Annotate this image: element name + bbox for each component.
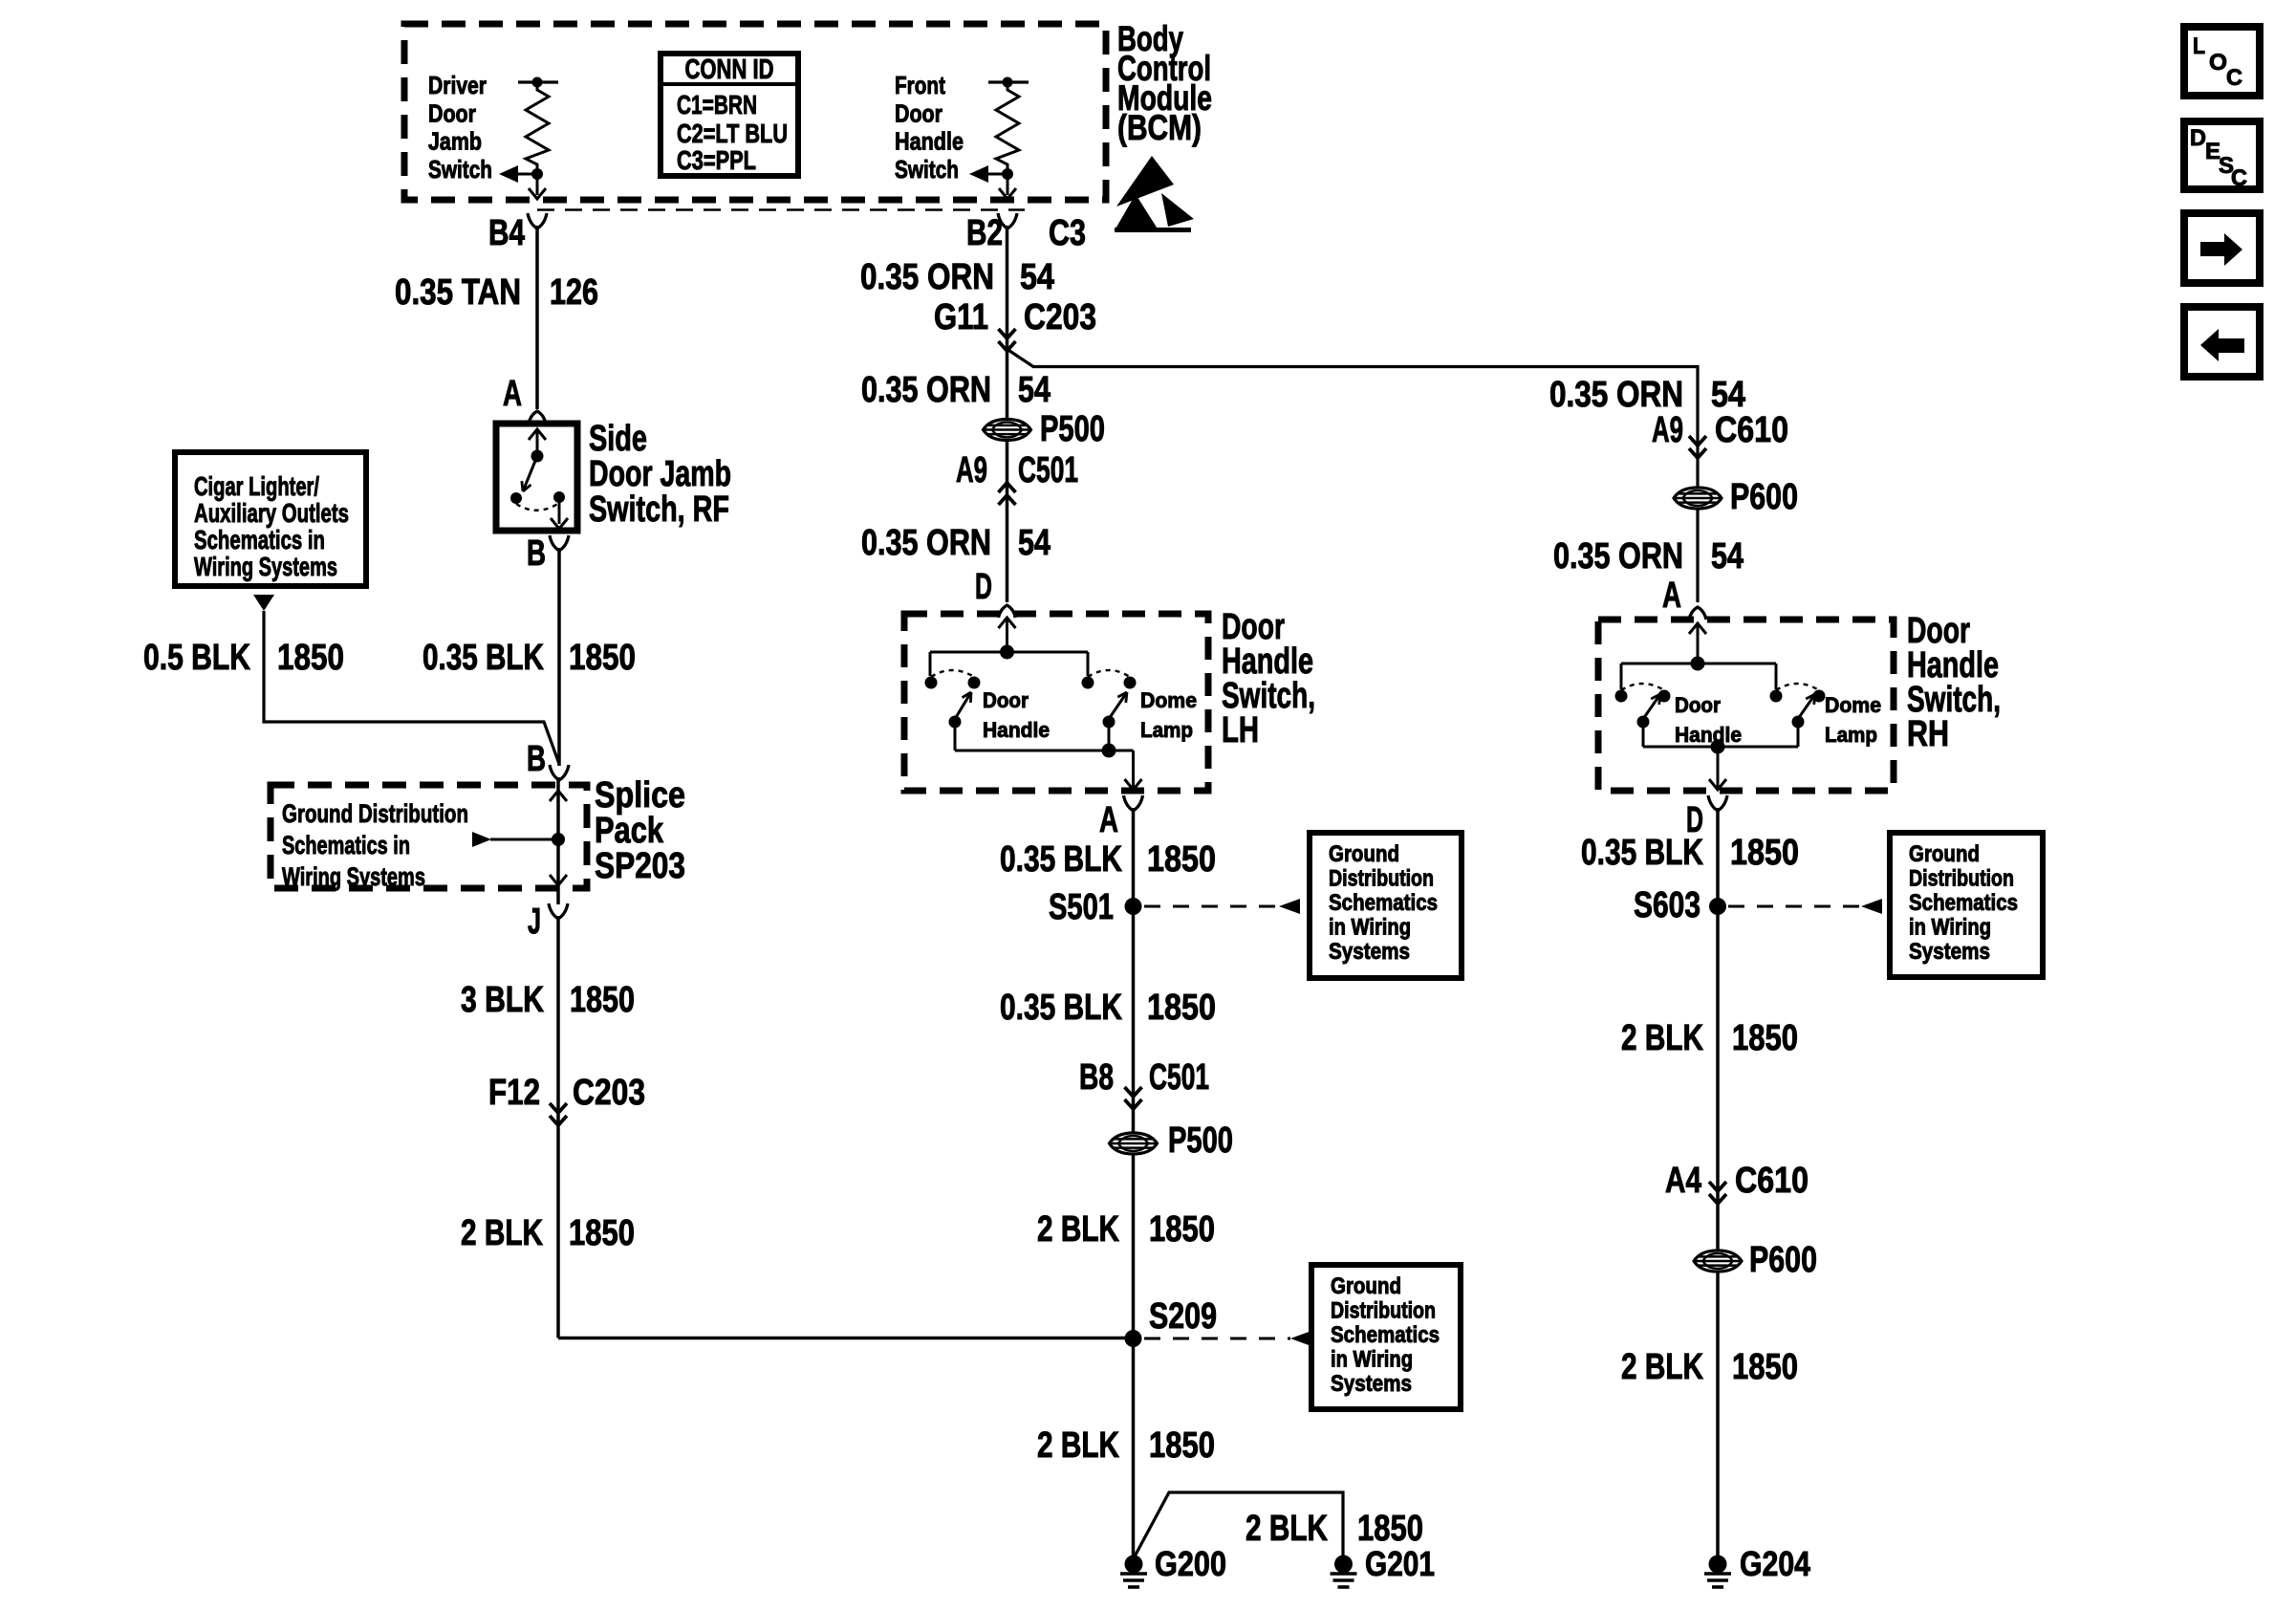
svg-text:G201: G201 [1365, 1544, 1435, 1583]
svg-text:S603: S603 [1634, 885, 1700, 925]
svg-text:1850: 1850 [1730, 833, 1799, 873]
svg-text:0.35 BLK: 0.35 BLK [1000, 988, 1122, 1028]
svg-text:Ground Distribution: Ground Distribution [282, 799, 468, 828]
svg-text:C501: C501 [1018, 450, 1078, 490]
svg-text:2 BLK: 2 BLK [1037, 1209, 1119, 1250]
svg-text:0.35 ORN: 0.35 ORN [1553, 536, 1683, 577]
svg-text:G11: G11 [934, 297, 988, 337]
svg-text:Door: Door [983, 688, 1029, 712]
svg-text:1850: 1850 [570, 980, 635, 1020]
svg-text:B2: B2 [966, 213, 1003, 253]
svg-text:Switch: Switch [895, 155, 959, 184]
svg-text:A: A [1099, 800, 1118, 840]
svg-text:Front: Front [895, 71, 945, 99]
svg-text:C: C [2226, 65, 2242, 91]
svg-text:Systems: Systems [1331, 1371, 1412, 1397]
svg-text:Lamp: Lamp [1140, 718, 1193, 742]
svg-text:0.35 ORN: 0.35 ORN [861, 523, 991, 563]
svg-text:Schematics in: Schematics in [194, 525, 325, 555]
svg-text:Handle: Handle [895, 127, 964, 156]
svg-text:54: 54 [1711, 536, 1744, 577]
svg-text:D: D [975, 567, 992, 607]
svg-text:B8: B8 [1079, 1057, 1114, 1098]
svg-text:C610: C610 [1715, 410, 1788, 450]
svg-text:C3=PPL: C3=PPL [677, 145, 756, 175]
svg-text:C203: C203 [1024, 297, 1096, 337]
svg-text:2 BLK: 2 BLK [1245, 1509, 1328, 1549]
svg-text:0.35 ORN: 0.35 ORN [861, 370, 991, 410]
svg-text:Schematics: Schematics [1909, 890, 2018, 916]
svg-text:1850: 1850 [1149, 1209, 1215, 1250]
svg-text:0.35 ORN: 0.35 ORN [860, 257, 994, 297]
svg-text:1850: 1850 [1357, 1509, 1423, 1549]
svg-text:0.35 TAN: 0.35 TAN [395, 272, 521, 313]
svg-text:1850: 1850 [569, 638, 636, 678]
svg-text:Driver: Driver [428, 71, 487, 99]
svg-text:C203: C203 [573, 1073, 645, 1113]
svg-text:Wiring Systems: Wiring Systems [194, 552, 337, 581]
svg-text:Side: Side [589, 419, 647, 459]
svg-text:Distribution: Distribution [1331, 1298, 1436, 1324]
svg-text:S501: S501 [1049, 887, 1114, 927]
svg-text:Schematics: Schematics [1331, 1322, 1440, 1348]
svg-text:in Wiring: in Wiring [1909, 915, 1991, 941]
svg-text:Lamp: Lamp [1825, 723, 1877, 747]
svg-text:J: J [528, 902, 541, 942]
svg-text:B4: B4 [488, 213, 525, 253]
svg-text:Cigar Lighter/: Cigar Lighter/ [194, 471, 319, 501]
svg-text:126: 126 [550, 272, 598, 313]
svg-text:C2=LT BLU: C2=LT BLU [677, 119, 788, 148]
svg-text:54: 54 [1018, 523, 1051, 563]
svg-text:S209: S209 [1149, 1296, 1217, 1337]
svg-text:Door: Door [895, 98, 942, 127]
svg-text:Distribution: Distribution [1329, 866, 1434, 892]
svg-text:Handle: Handle [1675, 723, 1742, 747]
svg-text:Door Jamb: Door Jamb [589, 454, 731, 494]
svg-text:C: C [2231, 165, 2247, 191]
svg-text:Jamb: Jamb [428, 127, 482, 156]
svg-text:Ground: Ground [1331, 1273, 1401, 1299]
svg-text:C610: C610 [1735, 1161, 1809, 1201]
svg-text:Pack: Pack [595, 811, 664, 851]
svg-text:CONN ID: CONN ID [685, 54, 774, 85]
svg-text:2 BLK: 2 BLK [1037, 1425, 1119, 1466]
svg-text:0.35 BLK: 0.35 BLK [1581, 833, 1703, 873]
svg-text:Schematics: Schematics [1329, 890, 1438, 916]
svg-text:P600: P600 [1730, 477, 1798, 517]
svg-text:1850: 1850 [1149, 1425, 1215, 1466]
svg-text:1850: 1850 [277, 638, 344, 678]
svg-text:2 BLK: 2 BLK [1621, 1347, 1703, 1387]
svg-text:1850: 1850 [1732, 1347, 1798, 1387]
svg-text:C1=BRN: C1=BRN [677, 90, 757, 120]
svg-text:54: 54 [1018, 370, 1051, 410]
svg-text:Distribution: Distribution [1909, 866, 2014, 892]
svg-text:0.35 BLK: 0.35 BLK [422, 638, 544, 678]
svg-text:Door: Door [1675, 693, 1721, 717]
svg-text:2 BLK: 2 BLK [461, 1213, 543, 1253]
svg-text:G200: G200 [1155, 1544, 1226, 1583]
svg-text:54: 54 [1711, 375, 1745, 415]
svg-text:Dome: Dome [1140, 688, 1197, 712]
svg-text:Dome: Dome [1825, 693, 1881, 717]
svg-text:1850: 1850 [1147, 839, 1216, 880]
svg-text:Wiring Systems: Wiring Systems [282, 862, 425, 891]
svg-text:L: L [2193, 33, 2205, 59]
svg-text:Switch, RF: Switch, RF [589, 490, 729, 530]
svg-text:0.35 ORN: 0.35 ORN [1549, 375, 1683, 415]
svg-text:A9: A9 [1652, 410, 1683, 450]
svg-text:RH: RH [1907, 714, 1949, 754]
svg-text:F12: F12 [488, 1073, 540, 1113]
svg-text:1850: 1850 [569, 1213, 635, 1253]
svg-text:in Wiring: in Wiring [1331, 1347, 1413, 1373]
svg-text:1850: 1850 [1147, 988, 1216, 1028]
svg-text:D: D [2190, 125, 2206, 151]
svg-text:P500: P500 [1040, 409, 1105, 449]
svg-text:Splice: Splice [595, 775, 685, 816]
svg-text:A4: A4 [1665, 1161, 1701, 1201]
svg-text:2 BLK: 2 BLK [1621, 1018, 1703, 1058]
svg-text:O: O [2209, 50, 2227, 76]
svg-text:54: 54 [1020, 257, 1054, 297]
svg-text:(BCM): (BCM) [1117, 108, 1202, 147]
svg-text:in Wiring: in Wiring [1329, 915, 1411, 941]
svg-text:B: B [527, 739, 546, 779]
svg-text:A9: A9 [956, 450, 987, 490]
svg-text:C3: C3 [1049, 213, 1086, 253]
svg-text:1850: 1850 [1732, 1018, 1798, 1058]
svg-text:G204: G204 [1740, 1544, 1810, 1583]
svg-text:SP203: SP203 [595, 846, 685, 886]
svg-text:Ground: Ground [1329, 841, 1399, 867]
svg-text:Door: Door [428, 98, 476, 127]
svg-text:A: A [1662, 576, 1681, 616]
svg-text:A: A [503, 374, 522, 414]
svg-text:C501: C501 [1149, 1057, 1209, 1098]
svg-text:Auxiliary Outlets: Auxiliary Outlets [194, 498, 349, 528]
svg-text:0.35 BLK: 0.35 BLK [1000, 839, 1122, 880]
svg-text:0.5 BLK: 0.5 BLK [143, 638, 250, 678]
svg-text:Systems: Systems [1909, 939, 1990, 965]
svg-text:B: B [527, 533, 546, 574]
svg-text:3 BLK: 3 BLK [461, 980, 544, 1020]
svg-text:Handle: Handle [983, 718, 1050, 742]
svg-text:Ground: Ground [1909, 841, 1980, 867]
svg-text:Systems: Systems [1329, 939, 1410, 965]
svg-text:LH: LH [1222, 710, 1259, 751]
svg-text:P500: P500 [1168, 1120, 1233, 1161]
svg-text:Schematics in: Schematics in [282, 831, 410, 859]
svg-text:P600: P600 [1749, 1240, 1817, 1280]
svg-text:Switch: Switch [428, 155, 492, 184]
